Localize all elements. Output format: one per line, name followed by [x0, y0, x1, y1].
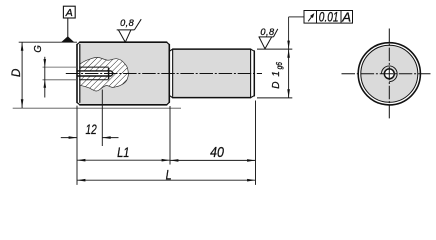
- svg-text:40: 40: [210, 145, 224, 161]
- svg-text:A: A: [341, 10, 351, 25]
- svg-text:D: D: [11, 69, 23, 77]
- svg-text:L: L: [166, 168, 172, 183]
- svg-text:D1: D1: [271, 71, 282, 89]
- svg-text:g6: g6: [275, 62, 284, 70]
- svg-text:0.01: 0.01: [319, 10, 339, 25]
- svg-text:0,8: 0,8: [260, 27, 275, 37]
- svg-text:L1: L1: [117, 145, 129, 160]
- svg-text:G: G: [32, 45, 44, 52]
- svg-text:12: 12: [86, 121, 97, 137]
- svg-text:0,8: 0,8: [120, 18, 135, 28]
- svg-text:A: A: [65, 7, 73, 19]
